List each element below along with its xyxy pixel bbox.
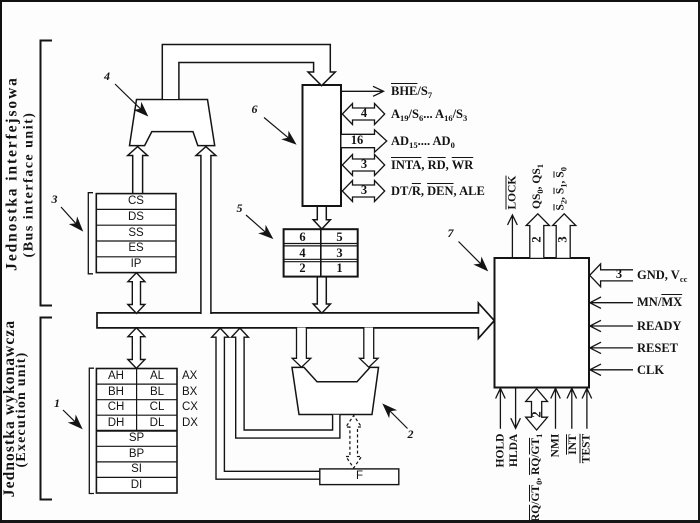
pointer arrow 3 [61,207,77,225]
ALU U2 arithmetic logic unit [292,367,379,414]
signal arrow S2 S1 S0 width 3 [553,214,576,258]
label CH [96,400,136,415]
block U6 bus control logic [303,85,342,206]
signal arrow BHE/S7 [342,86,384,96]
label pointer 5 [237,201,243,216]
label signal MN/MX [637,295,682,310]
label Jednostka wykonawcza [2,319,17,498]
label Bus interface unit [21,110,36,258]
label BL [137,385,177,400]
label DX [182,416,198,431]
wire arrow bus to adder right leg [196,147,216,314]
label IP [96,257,176,272]
signal arrow CLK [590,364,633,375]
label signal RQ/GT0 RQ/GT1 rotated [529,437,544,522]
label signal A19/S6...A16/S3 [391,107,467,122]
wire arrow bus to ALU left notch [292,328,311,368]
wire arrow U6 to queue [313,207,330,229]
label signal READY [637,319,681,334]
label Jednostka interfejsowa [5,75,20,271]
label width 3 INTA [354,157,374,172]
bracket segment-register group [88,193,93,274]
label signal RESET [637,341,678,356]
signal arrow GND Vcc width 3 [590,264,633,287]
wire arrow bus to ALU right notch [360,328,379,368]
signal arrow A19/S6-A16/S3 width 4 [342,104,384,125]
signal arrow TEST [582,388,592,428]
label AH [96,369,136,384]
label BH [96,385,136,400]
signal arrow INTA RD WR width 3 [342,155,384,176]
label queue 3 [321,246,358,261]
dashed double arrow ALU to F register [346,416,362,469]
label width 16 [346,133,368,148]
label signal QS0 QS1 rotated [530,164,545,209]
label signal INT rotated [566,434,581,455]
register block segment registers outline [96,194,176,273]
queue row lines [284,244,358,262]
signal arrow MN/MX [590,297,633,308]
label width 2 RQ rotated [529,405,544,423]
label signal INTA RD WR [391,158,473,173]
label signal BHE/S7 [391,84,432,99]
pointer arrow 4 [115,84,142,110]
label signal TEST rotated [580,433,595,463]
signal arrow DT/R DEN ALE width 3 [342,181,384,202]
label width 2 QS rotated [530,231,545,249]
general register row lines [96,384,177,477]
label signal LOCK rotated [505,178,520,210]
label DI [96,478,177,493]
label signal GND Vcc [637,268,687,283]
label queue 2 [284,261,321,276]
label DH [96,416,136,431]
signal double arrow RQ/GT width 2 [526,389,548,430]
label signal AD15...AD0 [391,134,455,149]
wire pipe F register to bus with arrow [212,328,320,479]
pointer arrow 1 [63,410,76,423]
label BX [182,385,197,400]
label pointer 7 [448,226,454,241]
label DL [137,416,177,431]
label width 3 S rotated [556,231,571,249]
signal arrow LOCK [508,215,518,258]
wire double arrow IP row to bus [128,273,145,314]
label signal HOLD rotated [493,434,508,468]
label width 3 GND [609,267,629,282]
queue block outline [284,229,358,276]
signal arrow HOLD [496,388,506,428]
wire arrow CS row to adder left leg [128,147,148,195]
label CX [182,400,198,415]
signal arrow AD15-AD0 width 16 [342,130,387,152]
pointer arrow 7 [459,242,482,265]
bracket Bus-interface-unit section [41,41,53,306]
label signal DT/R DEN ALE [391,184,485,199]
label signal NMI rotated [549,433,564,457]
label queue 1 [321,261,358,276]
wire double arrow bus to register file [128,328,145,369]
label signal S2 S1 S0 rotated [554,169,569,211]
queue centre divider [320,229,322,276]
label ES [96,241,176,256]
label queue 6 [284,230,321,245]
label SS [96,226,176,241]
pointer arrow 6 [264,118,289,139]
signal arrow HLDA [511,388,521,429]
segment register row lines [96,209,176,256]
label SI [96,462,177,477]
block U7 EU control unit [495,258,590,388]
general register thick row line [96,430,177,432]
label DS [96,210,176,225]
general register centre divider [136,369,138,431]
signal arrow READY [590,320,633,331]
register F flags box [320,469,399,485]
label BP [96,447,177,462]
register block general registers outline [96,369,177,494]
label width 3 DT [354,183,374,198]
label signal CLK [637,363,664,378]
wire pipe ALU output to bus with arrow [231,328,340,438]
signal arrow INT [567,388,577,428]
label pointer 4 [104,69,110,84]
label pointer 2 [408,427,414,442]
label AX [182,369,197,384]
label width 4 [354,106,374,121]
bracket general-register group [89,368,94,493]
signal arrow QS0 QS1 width 2 [526,214,549,258]
wire arrow queue to bus [313,278,330,314]
label CL [137,400,177,415]
label CS [96,194,176,209]
pointer arrow 2 [389,410,408,429]
label pointer 3 [52,192,58,207]
label AL [137,369,177,384]
signal arrow RESET [590,342,633,353]
label signal HLDA rotated [507,434,522,467]
pointer arrow 5 [246,215,266,233]
label pointer 6 [252,102,258,117]
label Execution unit [14,351,29,468]
signal arrow NMI [551,388,561,428]
wire pipe from adder U4 to U6 with arrow [162,45,335,100]
main internal bus with arrow into U7 [97,303,494,338]
label F [320,469,399,484]
label queue 5 [321,230,358,245]
label SP [96,431,177,446]
label pointer 1 [54,396,60,411]
adder U4 address summing block [130,100,215,146]
bracket Execution-unit section [41,318,53,500]
label queue 4 [284,246,321,261]
